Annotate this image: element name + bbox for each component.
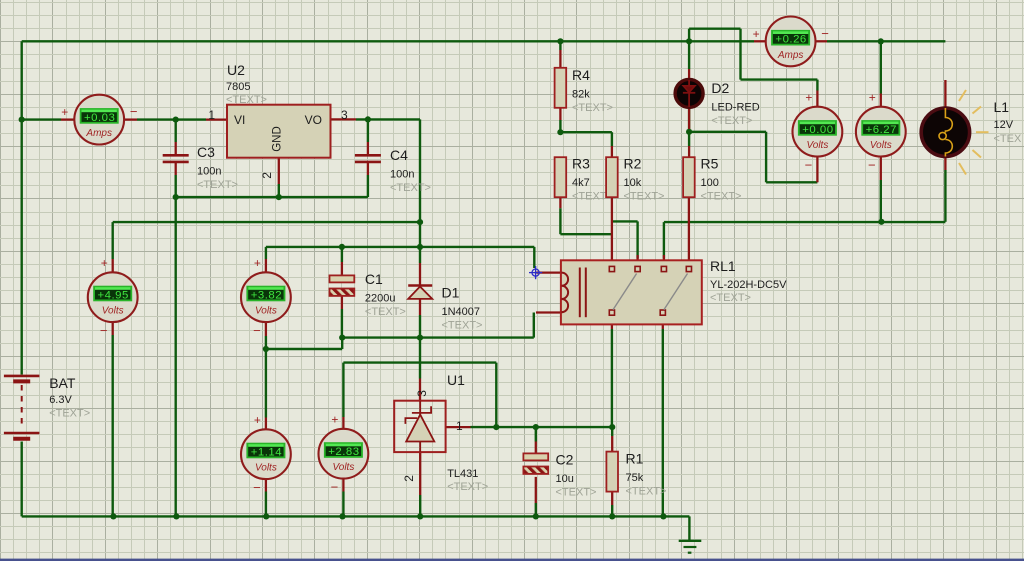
svg-text:<TEXT>: <TEXT> — [710, 292, 751, 304]
svg-text:+2.83: +2.83 — [328, 446, 359, 458]
svg-text:Volts: Volts — [255, 306, 277, 317]
svg-text:<TEXT>: <TEXT> — [365, 306, 406, 318]
svg-text:U2: U2 — [227, 62, 245, 78]
svg-text:+0.03: +0.03 — [84, 112, 115, 124]
svg-text:<TEXT>: <TEXT> — [572, 102, 613, 114]
svg-text:−: − — [821, 26, 829, 41]
svg-text:−: − — [253, 480, 261, 495]
svg-text:C4: C4 — [390, 147, 408, 163]
svg-text:−: − — [805, 158, 813, 173]
svg-text:Volts: Volts — [870, 140, 892, 151]
svg-text:R1: R1 — [626, 451, 644, 467]
svg-text:<TEX: <TEX — [994, 133, 1022, 145]
svg-text:+1.14: +1.14 — [251, 446, 282, 458]
svg-text:100n: 100n — [197, 166, 221, 178]
svg-text:BAT: BAT — [49, 375, 76, 391]
svg-text:100: 100 — [701, 177, 719, 189]
svg-text:+3.82: +3.82 — [251, 289, 282, 301]
svg-text:+: + — [331, 413, 338, 427]
svg-text:7805: 7805 — [226, 81, 250, 93]
svg-text:+: + — [254, 413, 261, 427]
svg-text:−: − — [868, 158, 876, 173]
svg-text:2: 2 — [402, 475, 416, 482]
svg-text:+4.95: +4.95 — [98, 289, 129, 301]
svg-text:GND: GND — [272, 126, 284, 152]
svg-text:R4: R4 — [572, 67, 590, 83]
svg-text:<TEXT>: <TEXT> — [626, 486, 667, 498]
svg-text:+: + — [805, 91, 812, 105]
svg-text:−: − — [130, 104, 138, 119]
svg-text:D1: D1 — [442, 285, 460, 301]
svg-text:100n: 100n — [390, 169, 414, 181]
svg-text:+0.00: +0.00 — [802, 124, 833, 136]
svg-text:3: 3 — [415, 390, 429, 397]
svg-text:Volts: Volts — [332, 462, 354, 473]
svg-text:<TEXT>: <TEXT> — [447, 481, 488, 493]
svg-text:<TEXT>: <TEXT> — [701, 191, 742, 203]
svg-text:C3: C3 — [197, 144, 215, 160]
svg-text:+: + — [61, 105, 68, 119]
svg-text:U1: U1 — [447, 372, 465, 388]
svg-text:Amps: Amps — [777, 50, 804, 61]
svg-text:C2: C2 — [556, 452, 574, 468]
svg-text:−: − — [253, 323, 261, 338]
svg-text:<TEXT>: <TEXT> — [442, 320, 483, 332]
svg-text:+6.27: +6.27 — [866, 124, 897, 136]
svg-text:VI: VI — [234, 113, 245, 127]
svg-text:+0.26: +0.26 — [775, 34, 806, 46]
svg-text:−: − — [331, 480, 339, 495]
svg-text:<TEXT>: <TEXT> — [390, 182, 431, 194]
svg-text:4k7: 4k7 — [572, 177, 590, 189]
svg-text:75k: 75k — [626, 472, 644, 484]
svg-text:R2: R2 — [624, 156, 642, 172]
svg-text:+: + — [254, 256, 261, 270]
svg-text:6.3V: 6.3V — [49, 394, 72, 406]
svg-text:<TEXT>: <TEXT> — [49, 408, 90, 420]
svg-text:D2: D2 — [711, 80, 729, 96]
svg-text:VO: VO — [305, 113, 322, 127]
svg-text:LED-RED: LED-RED — [711, 102, 759, 114]
svg-text:Volts: Volts — [102, 306, 124, 317]
svg-text:TL431: TL431 — [447, 468, 478, 480]
svg-text:2200u: 2200u — [365, 293, 396, 305]
svg-text:82k: 82k — [572, 89, 590, 101]
svg-text:R5: R5 — [701, 156, 719, 172]
svg-text:<TEXT>: <TEXT> — [226, 94, 267, 106]
svg-text:1: 1 — [208, 108, 215, 122]
svg-text:+: + — [753, 27, 760, 41]
svg-text:10u: 10u — [556, 473, 574, 485]
svg-text:R3: R3 — [572, 156, 590, 172]
svg-text:+: + — [101, 256, 108, 270]
svg-text:+: + — [869, 91, 876, 105]
svg-text:Volts: Volts — [806, 140, 828, 151]
svg-text:<TEXT>: <TEXT> — [624, 191, 665, 203]
svg-text:RL1: RL1 — [710, 258, 736, 274]
svg-text:<TEXT>: <TEXT> — [711, 115, 752, 127]
svg-text:10k: 10k — [624, 177, 642, 189]
svg-text:1: 1 — [456, 419, 463, 433]
svg-text:2: 2 — [260, 172, 274, 179]
svg-text:Amps: Amps — [85, 128, 112, 139]
svg-text:1N4007: 1N4007 — [442, 306, 481, 318]
svg-text:<TEXT>: <TEXT> — [556, 487, 597, 499]
svg-text:L1: L1 — [994, 99, 1010, 115]
svg-text:YL-202H-DC5V: YL-202H-DC5V — [710, 279, 787, 291]
svg-text:C1: C1 — [365, 271, 383, 287]
svg-text:3: 3 — [341, 108, 348, 122]
svg-text:<TEXT>: <TEXT> — [197, 179, 238, 191]
svg-text:12V: 12V — [994, 119, 1014, 131]
svg-text:Volts: Volts — [255, 463, 277, 474]
svg-text:−: − — [100, 323, 108, 338]
